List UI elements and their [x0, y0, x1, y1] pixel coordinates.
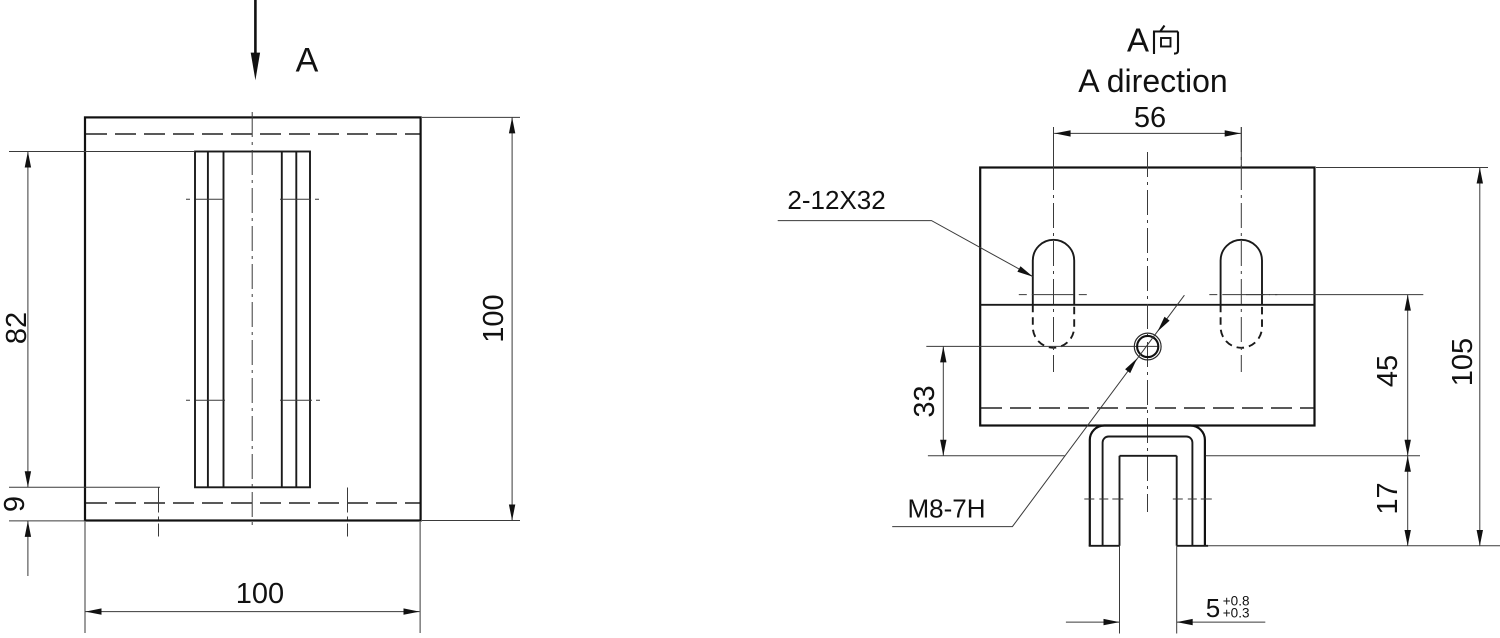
dim 100 right extension top	[422, 116, 520, 118]
channel outer	[1090, 426, 1205, 546]
svg-text:A: A	[296, 42, 319, 80]
svg-text:82: 82	[1, 312, 33, 344]
plate outline A view	[980, 168, 1314, 426]
bottom extension line	[1208, 545, 1500, 547]
plate mid edge	[980, 304, 1314, 306]
svg-text:17: 17	[1372, 482, 1404, 514]
slot edge line 3	[281, 152, 283, 488]
slot left visible part	[1033, 240, 1074, 305]
dim 100 right extension bottom	[422, 520, 520, 522]
bottom center mark left	[158, 488, 160, 537]
dim 82 line	[27, 152, 29, 488]
slot right hidden part	[1221, 305, 1262, 348]
main center line A view	[1147, 152, 1149, 512]
rail top edge	[1120, 455, 1177, 457]
svg-text:9: 9	[0, 496, 31, 512]
dim 17 line	[1407, 456, 1409, 546]
dim 33 bottom extension	[928, 455, 1065, 457]
channel center mark right	[1173, 498, 1212, 500]
dim 100 bottom line	[85, 611, 420, 613]
svg-text:A: A	[1127, 22, 1149, 59]
channel end right	[1177, 545, 1209, 547]
svg-text:5: 5	[1206, 593, 1220, 623]
leader M8 line	[892, 295, 1184, 526]
slot left center mark	[1019, 294, 1087, 296]
svg-text:105: 105	[1447, 338, 1479, 386]
vertical center line	[251, 112, 253, 528]
hidden edge bottom	[86, 502, 420, 504]
hole center mark upper right	[280, 198, 319, 200]
dim 45 bottom extension	[1206, 455, 1420, 457]
svg-text:M8-7H: M8-7H	[908, 493, 986, 523]
svg-text:33: 33	[909, 385, 941, 417]
dim 82 extension bottom	[9, 486, 160, 488]
hole center mark lower left	[186, 399, 225, 401]
slot right center mark	[1209, 294, 1277, 296]
dim 9 line tail	[27, 521, 29, 576]
dim 105 line	[1479, 168, 1481, 547]
rail left side	[1119, 456, 1121, 634]
channel end left	[1089, 545, 1120, 547]
slot right center line	[1240, 127, 1242, 168]
title A xiang	[1127, 22, 1178, 59]
dim 33 line	[942, 346, 944, 455]
dim 100 bottom extension right	[419, 522, 421, 633]
bottom center mark right	[347, 488, 349, 537]
dim 45 line	[1407, 295, 1409, 456]
dim 105 top extension	[1316, 167, 1488, 169]
slot outline	[195, 152, 310, 488]
channel inner	[1103, 437, 1193, 546]
hidden edge A view	[981, 407, 1314, 409]
slot left hidden part	[1033, 305, 1074, 348]
dim 45 top extension	[1246, 294, 1423, 296]
hidden edge top	[86, 133, 420, 135]
dim 56 line	[1054, 132, 1241, 134]
tapped hole M8 inner	[1137, 336, 1158, 357]
dim 9 extension bottom	[9, 520, 85, 522]
dim 82 extension top	[9, 151, 195, 153]
svg-text:45: 45	[1372, 355, 1404, 387]
view direction arrow A	[251, 0, 260, 80]
dim 5 line left	[1066, 621, 1120, 623]
slot edge line 4	[295, 152, 297, 488]
rail right side	[1176, 456, 1178, 634]
dim 5 line right	[1177, 621, 1266, 623]
plate outline left view	[85, 117, 421, 520]
dim 33 top extension	[926, 345, 1158, 347]
hole center mark upper left	[186, 198, 224, 200]
slot edge line 1	[207, 152, 209, 488]
slot left center line	[1053, 127, 1055, 168]
svg-text:56: 56	[1134, 102, 1166, 134]
hole center mark lower right	[280, 399, 320, 401]
svg-text:+0.3: +0.3	[1223, 606, 1250, 621]
dim 100 bottom extension left	[84, 522, 86, 633]
dim 5 text	[1206, 593, 1250, 623]
slot right visible part	[1221, 240, 1262, 305]
channel center mark left	[1084, 498, 1123, 500]
svg-text:100: 100	[478, 294, 510, 342]
slot edge line 2	[223, 152, 225, 488]
tapped hole M8 outer	[1134, 333, 1161, 360]
dim 100 right line	[511, 117, 513, 520]
leader 2-12X32 line	[778, 221, 1033, 277]
svg-text:2-12X32: 2-12X32	[787, 185, 885, 215]
svg-text:A direction: A direction	[1078, 63, 1227, 99]
svg-text:100: 100	[236, 578, 284, 610]
